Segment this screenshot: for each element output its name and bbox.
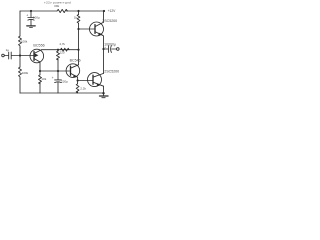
svg-text:4,7k: 4,7k (59, 42, 65, 46)
svg-text:BC546: BC546 (70, 58, 81, 62)
svg-text:2,2k: 2,2k (80, 87, 86, 91)
svg-text:+: + (26, 14, 28, 18)
svg-text:220µ: 220µ (61, 79, 68, 83)
svg-text:+: + (52, 76, 54, 80)
svg-text:39k: 39k (54, 4, 60, 8)
svg-text:100µ: 100µ (33, 16, 40, 20)
svg-text:2SC5200: 2SC5200 (104, 69, 119, 73)
svg-text:+12V: +12V (108, 9, 117, 13)
svg-text:100k: 100k (21, 40, 28, 44)
svg-text:100k: 100k (22, 71, 29, 75)
svg-text:10k: 10k (41, 77, 46, 81)
svg-text:1k: 1k (74, 16, 78, 20)
svg-text:10000µ: 10000µ (104, 42, 116, 46)
svg-text:2SC5200: 2SC5200 (102, 19, 117, 23)
svg-text:BC556: BC556 (33, 43, 44, 47)
svg-text:220: 220 (60, 51, 65, 55)
svg-text:1µ: 1µ (6, 48, 10, 52)
